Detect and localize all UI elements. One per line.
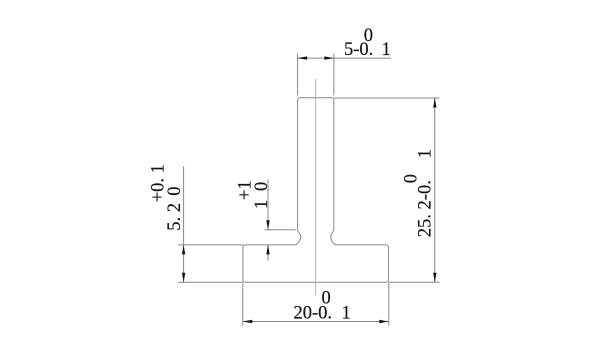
extension line right xyxy=(333,54,335,96)
arrow up xyxy=(433,98,436,108)
arrow down (tip at base bottom) xyxy=(182,273,185,283)
arrow up (tip at base top) xyxy=(182,245,185,255)
value 25.2 -0.1 (rotated) xyxy=(402,149,436,237)
extension line top (base top, extended left) xyxy=(178,244,243,246)
dimension 5.2 (base height, left) xyxy=(149,164,243,283)
extension line left xyxy=(297,54,299,96)
svg-text:0: 0 xyxy=(402,174,422,183)
extension line top (from stem top) xyxy=(334,97,440,99)
dimension line xyxy=(434,98,436,282)
svg-text:1: 1 xyxy=(252,200,272,209)
arrow left xyxy=(298,56,308,59)
centerline (stem axis) xyxy=(315,79,317,295)
dimension 5 (stem width, top) xyxy=(298,26,391,96)
svg-text:1: 1 xyxy=(415,149,435,158)
arrow down (tip at step line) xyxy=(266,220,269,230)
extension line right xyxy=(388,283,390,326)
T-profile outline xyxy=(243,98,389,283)
value 1 +1/0 (rotated) xyxy=(236,180,272,209)
arrow left xyxy=(243,320,253,323)
dimension line xyxy=(183,166,185,283)
extension line left xyxy=(242,283,244,326)
dimension 25.2 (total height, right) xyxy=(334,98,440,282)
svg-text:1: 1 xyxy=(382,40,391,60)
dimension line upper segment xyxy=(267,180,269,230)
svg-text:0: 0 xyxy=(322,289,331,309)
svg-text:+0. 1: +0. 1 xyxy=(149,164,169,202)
dimension line xyxy=(243,321,389,323)
extension line bottom (from base bottom) xyxy=(388,281,439,283)
arrow right xyxy=(379,320,389,323)
svg-text:1: 1 xyxy=(342,304,351,324)
extension line bottom (base bottom, extended left) xyxy=(178,281,243,283)
dimension 1 (neck height) xyxy=(236,180,296,261)
arrow up (tip at base top) xyxy=(266,245,269,255)
dimension 20 (base width, bottom) xyxy=(243,283,389,326)
dimension line with text leader xyxy=(298,57,391,59)
svg-text:25. 2-0.: 25. 2-0. xyxy=(415,180,435,237)
arrow down xyxy=(433,273,436,283)
svg-text:5. 2: 5. 2 xyxy=(165,203,185,231)
arrow right xyxy=(324,56,334,59)
value 5.2 +0.1/0 (rotated) xyxy=(149,164,185,231)
svg-text:0: 0 xyxy=(364,26,373,46)
svg-text:+1: +1 xyxy=(236,180,256,200)
dimension line lower segment xyxy=(267,245,269,261)
step extension line xyxy=(265,229,296,231)
